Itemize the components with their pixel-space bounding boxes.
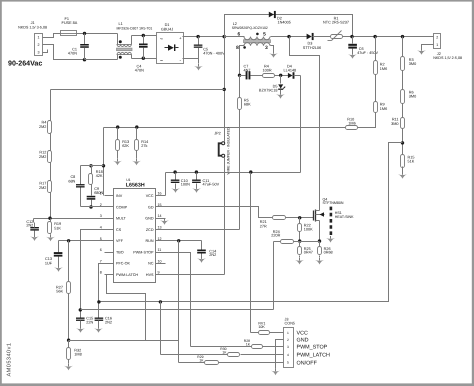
- svg-text:TBO: TBO: [116, 250, 124, 254]
- svg-text:NKDS 1,5/ 2-5,08: NKDS 1,5/ 2-5,08: [433, 56, 462, 60]
- svg-text:2: 2: [436, 35, 438, 39]
- svg-text:62K: 62K: [122, 144, 129, 148]
- svg-text:0R68: 0R68: [324, 251, 333, 255]
- svg-text:1K: 1K: [246, 342, 251, 346]
- svg-text:NTC 2R5-S237: NTC 2R5-S237: [323, 21, 349, 25]
- svg-text:PWM_LATCH: PWM_LATCH: [297, 353, 331, 359]
- svg-text:10: 10: [158, 259, 162, 263]
- svg-text:1M6: 1M6: [380, 107, 387, 111]
- svg-text:GD: GD: [148, 205, 154, 209]
- svg-text:2M2: 2M2: [39, 155, 46, 159]
- svg-text:15: 15: [158, 203, 162, 207]
- svg-text:GND: GND: [297, 338, 309, 344]
- svg-text:2M2: 2M2: [39, 186, 46, 190]
- svg-text:470N: 470N: [68, 52, 77, 56]
- svg-text:VCC: VCC: [146, 194, 154, 198]
- svg-text:8: 8: [236, 45, 239, 51]
- svg-text:2: 2: [38, 43, 40, 47]
- svg-text:1: 1: [287, 331, 289, 335]
- svg-text:68K: 68K: [244, 103, 251, 107]
- svg-text:7: 7: [100, 259, 102, 263]
- svg-text:3: 3: [265, 45, 268, 51]
- svg-text:INV: INV: [116, 194, 123, 198]
- svg-text:2: 2: [287, 338, 289, 342]
- svg-text:4: 4: [100, 226, 102, 230]
- svg-text:~: ~: [160, 37, 163, 43]
- svg-text:1: 1: [436, 43, 438, 47]
- svg-text:ZCD: ZCD: [146, 228, 154, 232]
- svg-text:6: 6: [100, 248, 102, 252]
- svg-text:ON/OFF: ON/OFF: [297, 360, 318, 366]
- svg-text:1N4005: 1N4005: [278, 21, 291, 25]
- svg-text:3M0: 3M0: [409, 95, 416, 99]
- svg-text:3: 3: [38, 51, 40, 55]
- svg-text:4: 4: [287, 353, 289, 357]
- svg-text:PWM-LATCH: PWM-LATCH: [116, 273, 138, 277]
- svg-text:1K: 1K: [199, 359, 204, 363]
- svg-text:GND: GND: [145, 217, 154, 221]
- svg-text:27k: 27k: [141, 144, 147, 148]
- svg-text:51K: 51K: [54, 226, 61, 230]
- svg-text:NC: NC: [148, 262, 154, 266]
- svg-text:56K: 56K: [56, 290, 63, 294]
- svg-text:470N - 400V: 470N - 400V: [203, 51, 225, 55]
- svg-text:47uF-50V: 47uF-50V: [203, 183, 220, 187]
- svg-text:42K: 42K: [96, 174, 103, 178]
- svg-text:HVS: HVS: [146, 273, 154, 277]
- svg-text:~: ~: [160, 58, 163, 64]
- svg-text:U1: U1: [126, 178, 130, 182]
- svg-text:68N: 68N: [68, 179, 75, 183]
- svg-text:L6563H: L6563H: [126, 183, 145, 189]
- svg-text:5: 5: [263, 31, 266, 37]
- svg-text:14: 14: [158, 214, 162, 218]
- svg-text:3M0: 3M0: [391, 122, 398, 126]
- svg-text:220R: 220R: [271, 234, 280, 238]
- svg-text:5: 5: [287, 361, 289, 365]
- svg-text:13: 13: [158, 226, 162, 230]
- svg-text:470N: 470N: [135, 69, 144, 73]
- svg-text:VCC: VCC: [297, 331, 308, 337]
- svg-text:9: 9: [158, 271, 160, 275]
- svg-text:PFC-OK: PFC-OK: [116, 262, 130, 266]
- svg-text:3: 3: [287, 345, 289, 349]
- svg-text:PWM_STOP: PWM_STOP: [297, 345, 328, 351]
- svg-text:2N2: 2N2: [209, 253, 216, 257]
- svg-text:2N2: 2N2: [105, 320, 112, 324]
- svg-text:JP2: JP2: [214, 132, 221, 136]
- svg-text:VFF: VFF: [116, 239, 124, 243]
- svg-text:22N: 22N: [86, 320, 93, 324]
- svg-text:1M6: 1M6: [348, 121, 355, 125]
- svg-text:10K: 10K: [258, 325, 265, 329]
- svg-text:27R: 27R: [260, 224, 267, 228]
- svg-text:1: 1: [38, 36, 40, 40]
- svg-text:MF2926-D307 1R5-T01: MF2926-D307 1R5-T01: [117, 26, 153, 30]
- svg-text:HEAT-SINK: HEAT-SINK: [335, 215, 354, 219]
- svg-text:STTH2L06: STTH2L06: [303, 46, 321, 50]
- svg-text:GBU4J: GBU4J: [161, 27, 173, 31]
- svg-text:RUN: RUN: [146, 239, 154, 243]
- svg-text:2M2: 2M2: [39, 125, 46, 129]
- svg-text:0R47: 0R47: [304, 251, 313, 255]
- svg-text:6: 6: [237, 31, 240, 37]
- svg-text:SRW2820PQ-XDZV102: SRW2820PQ-XDZV102: [232, 26, 268, 30]
- svg-text:12: 12: [158, 237, 162, 241]
- svg-text:WIRE JUMPER - INSULATED: WIRE JUMPER - INSULATED: [226, 127, 230, 174]
- svg-text:COMP: COMP: [116, 205, 128, 209]
- svg-text:CS: CS: [116, 228, 122, 232]
- svg-text:NKDS 1,5/ 3-5,08: NKDS 1,5/ 3-5,08: [18, 25, 47, 29]
- svg-text:1M8: 1M8: [74, 353, 81, 357]
- svg-text:100R: 100R: [263, 69, 272, 73]
- svg-text:1M6: 1M6: [380, 67, 387, 71]
- svg-text:MULT: MULT: [116, 217, 127, 221]
- svg-text:LL4148: LL4148: [284, 69, 297, 73]
- svg-text:1K: 1K: [222, 351, 227, 355]
- svg-text:51K: 51K: [408, 160, 415, 164]
- svg-text:STF7NM80N: STF7NM80N: [323, 201, 344, 205]
- svg-text:16: 16: [158, 192, 162, 196]
- svg-text:3M0: 3M0: [409, 62, 416, 66]
- svg-text:PWM-STOP: PWM-STOP: [133, 250, 154, 254]
- svg-text:3: 3: [100, 214, 102, 218]
- svg-text:680N: 680N: [94, 191, 103, 195]
- svg-text:1UF: 1UF: [45, 261, 53, 265]
- svg-text:CON5: CON5: [285, 321, 296, 325]
- svg-text:100N: 100N: [181, 183, 190, 187]
- svg-text:100K: 100K: [304, 228, 313, 232]
- svg-text:AM05340v1: AM05340v1: [7, 343, 13, 377]
- svg-text:FUSE 8A: FUSE 8A: [62, 21, 78, 25]
- svg-text:11: 11: [158, 248, 162, 252]
- svg-text:2N2: 2N2: [26, 224, 33, 228]
- svg-text:4N7: 4N7: [244, 69, 251, 73]
- svg-text:BZX79C18: BZX79C18: [259, 89, 278, 93]
- svg-text:90-264Vac: 90-264Vac: [8, 59, 42, 67]
- svg-text:8: 8: [100, 271, 102, 275]
